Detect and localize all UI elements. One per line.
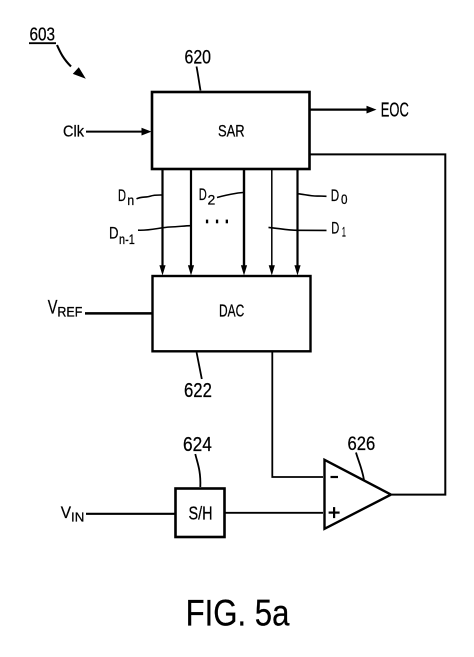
svg-text:DAC: DAC (219, 301, 244, 321)
label VREF (48, 298, 83, 320)
svg-text:V: V (61, 503, 72, 522)
ellipsis dots between bus bits (206, 220, 228, 224)
wire Clk input arrow (86, 128, 152, 136)
svg-text:D: D (331, 186, 339, 205)
svg-text:D: D (199, 185, 207, 204)
svg-text:REF: REF (57, 303, 82, 319)
label D0 with leader (299, 186, 348, 207)
svg-text:620: 620 (185, 48, 212, 69)
svg-text:Clk: Clk (63, 124, 85, 141)
reference numeral 622 (DAC block) with leader (184, 353, 212, 403)
svg-text:626: 626 (348, 433, 376, 455)
svg-text:n-1: n-1 (119, 232, 135, 247)
label EOC (381, 100, 409, 122)
comparator plus input sign (329, 507, 340, 518)
svg-text:S/H: S/H (189, 504, 213, 524)
label D2 with leader (199, 185, 243, 207)
svg-text:2: 2 (208, 193, 216, 208)
block SAR (620) (152, 92, 310, 169)
svg-text:FIG. 5a: FIG. 5a (186, 592, 290, 634)
reference numeral 620 (SAR block) (185, 48, 212, 91)
comparator U626 triangle (325, 460, 392, 529)
svg-text:D: D (331, 218, 339, 237)
block DAC (622) (153, 276, 311, 351)
block S/H (624) (176, 489, 225, 538)
comparator minus input sign (331, 476, 339, 478)
wire feedback from comparator output to SAR (310, 154, 445, 494)
svg-text:D: D (118, 186, 126, 205)
reference numeral 626 (comparator) with leader (348, 433, 376, 480)
wire bus bit Dn-1 (arrow 2 SAR to DAC) (188, 169, 194, 276)
reference numeral 624 (S/H block) with leader (183, 433, 212, 487)
svg-text:622: 622 (184, 380, 212, 402)
wire bus bit Dn (arrow 1 SAR to DAC) (159, 169, 165, 276)
wire S/H to comparator non-inverting input (225, 512, 323, 514)
figure reference label 603 (29, 23, 56, 44)
caption FIG. 5a (186, 592, 290, 634)
label VIN (61, 503, 85, 525)
leader arrow from 603 to diagram (57, 45, 86, 79)
svg-text:D: D (109, 225, 119, 243)
svg-text:SAR: SAR (218, 122, 245, 141)
wire bus bit D1 (arrow 4 SAR to DAC) (269, 169, 275, 276)
svg-text:624: 624 (183, 433, 212, 456)
svg-text:1: 1 (342, 224, 346, 239)
svg-text:EOC: EOC (381, 100, 409, 122)
svg-text:603: 603 (30, 23, 56, 44)
label Dn-1 with leader (109, 225, 191, 247)
wire bus bit D0 (arrow 5 SAR to DAC) (294, 169, 300, 276)
wire DAC output to comparator inverting input (272, 352, 323, 478)
wire bus bit D2 (arrow 3 SAR to DAC) (241, 169, 247, 276)
wire VIN to S/H (86, 513, 175, 515)
svg-text:0: 0 (341, 192, 348, 207)
label D1 with leader (269, 218, 346, 239)
svg-text:V: V (48, 298, 58, 319)
svg-text:n: n (127, 193, 134, 208)
label Clk (63, 124, 85, 141)
svg-text:IN: IN (71, 510, 84, 525)
label Dn with leader (118, 186, 162, 208)
wire VREF to DAC (85, 312, 152, 315)
wire EOC output arrow (310, 106, 377, 114)
